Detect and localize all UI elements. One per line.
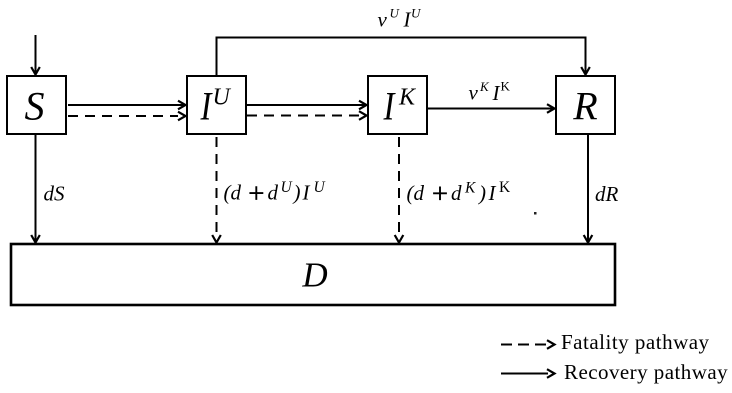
svg-text:d: d — [268, 181, 279, 205]
wire: inflow arrow into S — [31, 35, 40, 75]
svg-text:U: U — [314, 179, 327, 196]
svg-text:U: U — [411, 6, 422, 21]
svg-text:I: I — [488, 181, 497, 205]
svg-text:K: K — [398, 85, 417, 111]
svg-text:d: d — [451, 181, 462, 205]
stray period dot — [534, 212, 537, 215]
node S (box) — [7, 76, 66, 134]
svg-text:K: K — [501, 79, 511, 94]
wire: IU to IK dashed — [247, 111, 367, 120]
svg-text:U: U — [390, 6, 401, 21]
svg-text:R: R — [572, 84, 597, 129]
svg-text:I: I — [302, 181, 311, 205]
svg-text:I: I — [383, 83, 396, 128]
wire: IK to R solid, label vK IK — [428, 79, 555, 113]
wire: R down to D solid, label dR — [584, 135, 619, 243]
svg-text:S: S — [25, 84, 45, 129]
wire: feedback IU to R over the top, label vU IU — [217, 6, 590, 76]
svg-text:D: D — [301, 256, 327, 295]
svg-text:I: I — [200, 83, 213, 128]
svg-text:dR: dR — [595, 182, 619, 206]
svg-text:dS: dS — [44, 182, 66, 206]
legend: recovery pathway (solid arrow) — [501, 360, 728, 384]
wire: S to IU dashed (fatality pathway) — [68, 112, 186, 121]
svg-text:U: U — [281, 179, 294, 196]
svg-text:K: K — [479, 79, 490, 94]
svg-text:(d: (d — [407, 181, 425, 205]
svg-text:(d: (d — [224, 181, 242, 205]
node IU (box) — [187, 76, 246, 134]
svg-text:K: K — [499, 179, 511, 196]
svg-text:): ) — [293, 181, 301, 205]
svg-text:K: K — [464, 180, 476, 197]
svg-text:Fatality pathway: Fatality pathway — [561, 330, 710, 354]
node R (box) — [556, 76, 615, 134]
svg-text:I: I — [492, 81, 501, 105]
node D (box) — [11, 244, 615, 305]
svg-text:U: U — [213, 85, 232, 111]
svg-text:v: v — [469, 81, 479, 105]
wire: IU to IK solid — [247, 101, 367, 110]
svg-text:v: v — [378, 8, 388, 32]
svg-text:Recovery pathway: Recovery pathway — [564, 360, 728, 384]
legend: fatality pathway (dashed arrow) — [501, 330, 710, 354]
wire: S to IU solid (recovery pathway) — [68, 101, 186, 110]
svg-text:): ) — [478, 181, 486, 205]
wire: IK down to D dashed, label (d+dK)IK — [395, 137, 511, 243]
node IK (box) — [368, 76, 427, 134]
wire: S down to D solid, label dS — [31, 135, 65, 243]
wire: IU down to D dashed, label (d+dU)IU — [212, 137, 326, 243]
